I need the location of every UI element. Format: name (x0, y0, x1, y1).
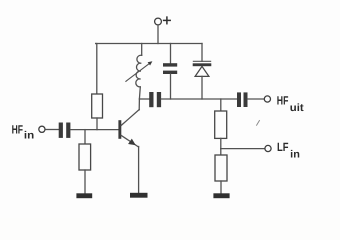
wire C-in to base (71, 129, 119, 131)
resistor R4 (215, 155, 227, 181)
wire emitter down (138, 147, 140, 193)
wire R2 to ground (84, 170, 86, 193)
wire C-out to terminal (248, 98, 265, 100)
wire LF node to terminal (221, 148, 265, 150)
resistor R1 (92, 94, 103, 118)
stray mark (257, 121, 260, 126)
capacitor input coupling (59, 123, 71, 138)
svg-text:HF: HF (12, 123, 23, 137)
node HF_in label (12, 123, 35, 142)
node LF_in label (277, 140, 300, 160)
wire R4 to ground (220, 181, 222, 193)
terminal LF_in (265, 145, 271, 151)
wire R3 to LF node (220, 138, 222, 148)
diode varicap D1 (193, 44, 212, 100)
node HF_uit label (277, 93, 304, 114)
wire top bus (96, 43, 202, 45)
svg-text:LF: LF (277, 140, 289, 154)
wire supply drop (157, 25, 159, 44)
svg-text:uit: uit (290, 102, 304, 114)
wire terminal to C-in (46, 129, 59, 131)
ground left (76, 193, 92, 198)
ground emitter (130, 193, 148, 198)
wire base wire drop to R2 (84, 130, 86, 144)
wire node line (161, 98, 237, 100)
wire node to R3 (220, 99, 222, 111)
wire collector/coil vertical (139, 87, 140, 110)
inductor L1 variable (126, 44, 152, 87)
resistor R3 (215, 111, 227, 138)
wire LF node to R4 (220, 149, 222, 155)
capacitor collector coupling (149, 92, 161, 107)
svg-text:HF: HF (277, 93, 289, 107)
ground right (213, 193, 229, 198)
terminal HF_uit (264, 96, 270, 102)
supply terminal + (155, 17, 171, 25)
capacitor decoupling C2 (163, 44, 177, 100)
resistor R2 (79, 144, 91, 170)
transistor Q1 (118, 110, 139, 147)
wire node tap to C-mid (139, 98, 149, 100)
wire left branch down to R1 (96, 44, 97, 95)
svg-text:in: in (290, 148, 300, 160)
terminal HF_in (39, 126, 45, 132)
wire R1 to base (96, 118, 98, 130)
capacitor output coupling (237, 92, 248, 107)
svg-text:in: in (24, 130, 34, 142)
